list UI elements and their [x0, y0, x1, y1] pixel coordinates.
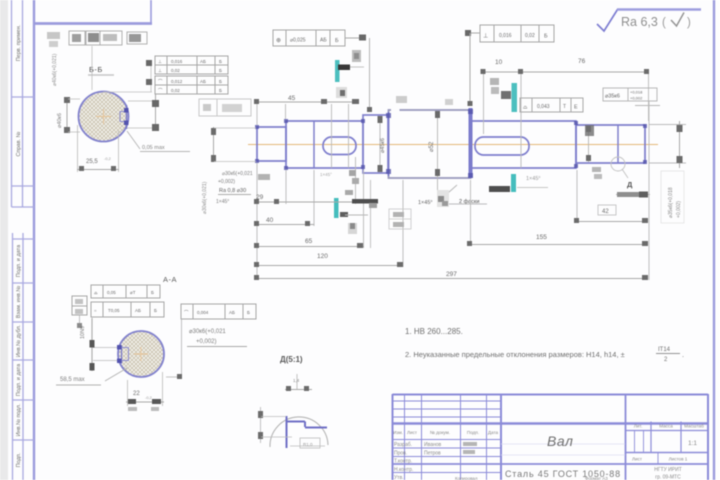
svg-text:Перв. примен.: Перв. примен. [16, 24, 22, 61]
svg-text:Н.контр.: Н.контр. [394, 467, 413, 473]
chamfer text above E [490, 78, 499, 85]
svg-text:Подп.: Подп. [467, 430, 479, 435]
dia dim inside step C [379, 116, 381, 172]
svg-text:0,043: 0,043 [537, 104, 550, 110]
tolerance frame row3 [181, 304, 256, 319]
svg-text:Б: Б [154, 308, 157, 313]
svg-text:(: ( [662, 17, 666, 29]
signature smudges [463, 442, 477, 454]
svg-text:1:1: 1:1 [688, 440, 697, 447]
svg-text:⌀30к6(+0,021): ⌀30к6(+0,021) [202, 181, 208, 214]
keyway2 tolerance frame [520, 98, 583, 112]
top dim [296, 374, 298, 389]
flat dims right [128, 100, 158, 102]
bottom bits [290, 445, 325, 447]
svg-text:2 фаски: 2 фаски [459, 199, 479, 205]
dia dim inside step D [437, 111, 439, 190]
svg-text:0,012: 0,012 [171, 79, 183, 84]
svg-text:Дата: Дата [488, 430, 499, 435]
left margin column bottom strip [13, 233, 35, 480]
detail D marker on groove [611, 157, 625, 171]
svg-text:Ra 0,8 ⌀30: Ra 0,8 ⌀30 [219, 188, 246, 194]
frame1 leader [345, 37, 364, 39]
groove profile blue [286, 416, 327, 448]
svg-text:Подп. и дата: Подп. и дата [16, 363, 22, 396]
А-А circle [118, 331, 164, 377]
svg-text:Т: Т [563, 104, 566, 110]
svg-text:Масса: Масса [659, 424, 673, 429]
shaft step D (largest) [389, 110, 471, 178]
svg-text:0,05: 0,05 [107, 290, 116, 295]
svg-text:+0,002): +0,002) [196, 339, 217, 345]
svg-text:1,4: 1,4 [293, 378, 300, 383]
big arc [270, 417, 328, 447]
title block lines [393, 394, 709, 480]
svg-text:Подп.: Подп. [16, 452, 22, 467]
signature rows [394, 442, 442, 480]
keyway flat [126, 105, 128, 129]
svg-text:Лит.: Лит. [634, 424, 643, 429]
svg-text:58,5 max: 58,5 max [60, 377, 85, 383]
svg-text:⌀40к6: ⌀40к6 [57, 113, 63, 128]
keyway2 datum above [512, 83, 518, 112]
svg-text:+0,002: +0,002 [630, 96, 643, 101]
chamfer leader at D/E [440, 185, 457, 200]
svg-text:⌒: ⌒ [184, 310, 189, 315]
svg-text:⌀Т: ⌀Т [130, 290, 136, 295]
roughness box left of shaft [199, 99, 251, 116]
connect to roughness [91, 46, 93, 90]
dim row 29 [257, 201, 378, 203]
svg-text:42: 42 [602, 209, 609, 215]
svg-text:АБ: АБ [200, 79, 206, 84]
roughness mark top right: check [597, 10, 618, 32]
shaft step C [363, 115, 388, 173]
center cross [96, 109, 111, 124]
svg-text:⊥: ⊥ [158, 59, 162, 64]
svg-text:Инв.№ дубл.: Инв.№ дубл. [16, 324, 22, 357]
dia dim left of step A [213, 127, 215, 162]
step D left edge blue [388, 112, 390, 176]
svg-text:29: 29 [256, 194, 264, 201]
datum flag above keyway1 [335, 60, 340, 82]
svg-text:+0,002): +0,002) [218, 179, 235, 185]
leader 0,05 max [127, 131, 140, 149]
svg-text:А-А: А-А [163, 275, 177, 284]
svg-text:АБ: АБ [320, 38, 327, 44]
groove depth dim [260, 407, 262, 443]
svg-text:Утв.: Утв. [394, 475, 404, 480]
svg-text:АБ: АБ [135, 308, 141, 313]
svg-text:Б: Б [219, 88, 222, 93]
svg-text:Иванов: Иванов [424, 442, 442, 448]
svg-text:Пров.: Пров. [394, 451, 407, 457]
svg-text:10N9: 10N9 [80, 326, 86, 339]
roughness boxes above [69, 31, 147, 45]
svg-text:297: 297 [446, 271, 457, 278]
svg-text:Б: Б [219, 68, 222, 73]
left margin column top strip [12, 0, 35, 207]
svg-text:1×45°: 1×45° [418, 200, 433, 206]
roughness bar [617, 8, 701, 11]
svg-text:22: 22 [133, 391, 140, 397]
svg-text:АБ: АБ [200, 59, 206, 64]
tolerance frame 2 [480, 25, 554, 42]
keyway 1 [323, 137, 356, 155]
svg-text:1×45°: 1×45° [320, 172, 332, 177]
dim row 297 [257, 278, 648, 280]
svg-text:Подп. и дата: Подп. и дата [16, 244, 22, 277]
datum flag below keyway1 [334, 198, 339, 218]
tolerance frame row1 [91, 285, 160, 298]
dim below А-А [127, 380, 129, 406]
svg-text:65: 65 [305, 238, 313, 245]
svg-text:Лист: Лист [407, 430, 418, 435]
svg-text:Б: Б [219, 79, 222, 84]
svg-text:⊕: ⊕ [276, 38, 281, 44]
svg-text:0,05 max: 0,05 max [142, 145, 165, 151]
svg-text:0,016: 0,016 [171, 59, 183, 64]
svg-text:Б: Б [151, 290, 154, 295]
svg-text:Взам. инв.№: Взам. инв.№ [16, 286, 22, 319]
svg-text:45: 45 [288, 95, 296, 102]
svg-text:№ докум.: № докум. [430, 430, 450, 435]
svg-text:Листов 1: Листов 1 [669, 457, 688, 462]
shaft step B [286, 121, 363, 168]
svg-text:1×45°: 1×45° [526, 176, 541, 182]
svg-text:): ) [687, 17, 691, 29]
dia dim inside step F [588, 126, 590, 162]
tolerance frames right of Б-Б [155, 56, 228, 94]
svg-text:0,016: 0,016 [499, 33, 512, 39]
svg-text:Ra 6,3: Ra 6,3 [621, 15, 658, 29]
frame2 leader [468, 32, 480, 34]
svg-text:+0,002): +0,002) [676, 201, 682, 218]
svg-text:-0,2: -0,2 [145, 395, 153, 400]
svg-text:Б-Б: Б-Б [89, 65, 103, 74]
dim 10 / 76 row [483, 71, 648, 73]
svg-text:=: = [94, 308, 97, 313]
dim row 65 [257, 246, 364, 248]
shaft step F [576, 125, 645, 163]
svg-text:Б: Б [335, 38, 339, 44]
tolerance frame row2 [91, 302, 164, 317]
dim 45 row [257, 101, 352, 103]
section circle Б-Б [79, 92, 129, 142]
svg-text:Разраб.: Разраб. [394, 442, 412, 448]
svg-text:0,02: 0,02 [171, 68, 180, 73]
svg-text:⌀30к6(+0,021: ⌀30к6(+0,021 [222, 171, 253, 177]
left gutter grey strip [0, 0, 8, 480]
frame right border [713, 0, 715, 480]
dia dim right of step F [649, 124, 686, 126]
svg-text:⊥: ⊥ [483, 33, 488, 40]
svg-text:⌀30к6(+0,021: ⌀30к6(+0,021 [189, 329, 226, 335]
graph26 box bottom line [33, 22, 152, 25]
svg-text:0,004: 0,004 [197, 310, 209, 315]
А-А keyway notch [121, 346, 123, 364]
svg-text:1. НВ 260...285.: 1. НВ 260...285. [405, 327, 463, 336]
faint guide rows in name cell [501, 444, 625, 455]
svg-text:Лист: Лист [632, 457, 643, 462]
svg-text:Б: Б [219, 59, 222, 64]
datum flag below keyway2 [511, 174, 516, 192]
svg-text:⌀40к6(+0,021): ⌀40к6(+0,021) [52, 53, 58, 86]
step B internal shoulder [313, 121, 315, 168]
leaders from frames [79, 315, 81, 327]
svg-text:Т.контр.: Т.контр. [394, 459, 412, 465]
svg-text:Формат A3: Формат A3 [585, 476, 608, 480]
svg-text:Инв.№ подл.: Инв.№ подл. [16, 403, 22, 436]
slot dim left [93, 347, 117, 349]
svg-text:⌓: ⌓ [523, 105, 528, 111]
svg-text:Б: Б [247, 310, 250, 315]
shaft step E [471, 121, 576, 168]
svg-text:Справ. №: Справ. № [16, 131, 22, 156]
frame left border [33, 0, 35, 480]
svg-text:Е: Е [574, 105, 578, 111]
svg-text:2. Неуказанные предельные откл: 2. Неуказанные предельные отклонения раз… [405, 350, 625, 359]
svg-text:10: 10 [495, 59, 503, 66]
tolerance frame 1 [273, 30, 345, 46]
extension lines below [257, 101, 649, 280]
svg-text:155: 155 [536, 234, 547, 241]
svg-text:Б: Б [544, 34, 548, 40]
svg-text:0,02: 0,02 [525, 33, 535, 39]
svg-text:R1,0: R1,0 [303, 442, 313, 447]
step D/E shoulder thick [469, 108, 473, 178]
svg-text:IT14: IT14 [658, 347, 671, 353]
dim row 155 [471, 244, 649, 246]
svg-text:⌀35к6: ⌀35к6 [605, 94, 620, 100]
svg-text:⌀0,025: ⌀0,025 [290, 38, 306, 44]
svg-text:Д: Д [627, 180, 633, 189]
svg-text:76: 76 [578, 58, 586, 65]
58,5 max leader [105, 368, 127, 381]
dim row 120 [257, 265, 403, 267]
small box left [72, 296, 87, 315]
white text-background gap on D top edge [391, 107, 400, 114]
tiny marks above shaft [396, 96, 407, 103]
svg-text:гр. 09-МТС: гр. 09-МТС [655, 475, 681, 480]
title header texts [393, 424, 704, 462]
svg-text:⌀52: ⌀52 [429, 141, 435, 152]
svg-text:Т0,05: Т0,05 [108, 308, 120, 313]
svg-text:⊥: ⊥ [158, 68, 162, 73]
svg-text:Петров: Петров [424, 451, 441, 457]
svg-text:Изм.: Изм. [393, 430, 403, 435]
svg-text:Масштаб: Масштаб [684, 424, 704, 429]
dim 25,5 below circle [77, 125, 79, 172]
dim row 42 [577, 221, 648, 223]
svg-text:0,02: 0,02 [171, 88, 180, 93]
step F groove line [617, 125, 619, 163]
svg-text:⌀45к6: ⌀45к6 [380, 138, 386, 153]
svg-text:40: 40 [266, 217, 274, 224]
left smudge cluster [47, 32, 60, 39]
svg-text:⌀35к6(+0,018: ⌀35к6(+0,018 [668, 187, 674, 218]
svg-text:Вал: Вал [547, 433, 573, 449]
svg-text:25,5: 25,5 [86, 159, 98, 165]
small marks below keyway1 [348, 223, 357, 234]
shaft step A [257, 127, 286, 161]
svg-text:1×45°: 1×45° [216, 199, 229, 205]
svg-text:⌒: ⌒ [158, 79, 163, 84]
label for step F dia [603, 88, 657, 101]
svg-text:+0,018: +0,018 [630, 90, 643, 95]
svg-text:Копировал: Копировал [455, 476, 478, 480]
centerline [248, 144, 658, 146]
svg-text:-0,2: -0,2 [104, 156, 112, 161]
dia dim left of circle [66, 97, 68, 133]
svg-text:⌓: ⌓ [94, 290, 98, 295]
junction dots [255, 109, 647, 178]
svg-text:АБ: АБ [229, 310, 235, 315]
svg-text:.: . [682, 350, 684, 359]
keyway 2 [475, 137, 529, 155]
svg-text:⌒: ⌒ [158, 88, 163, 93]
svg-text:120: 120 [317, 253, 328, 260]
svg-text:Д(5:1): Д(5:1) [280, 355, 303, 364]
graph26 box right line [150, 0, 152, 23]
dim row 40 [257, 224, 314, 226]
А-А center cross [134, 347, 148, 361]
svg-text:НГТУ ИРИТ: НГТУ ИРИТ [654, 467, 682, 473]
